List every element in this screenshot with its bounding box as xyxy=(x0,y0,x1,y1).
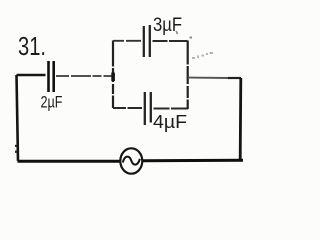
capacitor C2 3uF right plate xyxy=(149,25,151,57)
capacitor C2 3uF left plate xyxy=(143,26,145,57)
wire: top branch left (to C2) xyxy=(113,40,141,42)
wire: outer right vertical rail xyxy=(239,78,242,160)
node: parallel block right vertical wire xyxy=(187,41,189,110)
wire: bottom branch left (to C3) xyxy=(113,107,142,109)
svg-text:2µF: 2µF xyxy=(41,93,63,112)
faint tick mark above block top-right corner xyxy=(176,31,177,34)
svg-text:31.: 31. xyxy=(18,33,46,61)
junction blob at block left rail xyxy=(111,73,115,82)
node: parallel block left vertical wire xyxy=(112,41,114,109)
wire: bottom rail left of source xyxy=(18,160,121,163)
wire: middle right horizontal to outer right rail xyxy=(188,77,228,79)
svg-text:4µF: 4µF xyxy=(153,112,187,132)
wire: bottom rail right of source xyxy=(142,159,243,163)
capacitor C3 4uF left plate xyxy=(144,92,146,125)
wire: C1 to parallel block (broken scan line) xyxy=(56,75,112,77)
capacitor C1 2uF left plate xyxy=(47,61,50,92)
wire: top-left horizontal from outer corner to C1 xyxy=(17,74,46,76)
faint pencil marks right of 3uF label xyxy=(192,52,213,59)
scan nubs on left rail xyxy=(15,145,17,147)
wire: bottom branch right (C3 to right rail) xyxy=(154,108,189,110)
capacitor C3 4uF right plate xyxy=(150,92,152,123)
faint dot below 3uF label xyxy=(190,37,193,39)
AC source V1: circle xyxy=(120,148,142,173)
wire: top branch right (C2 to right rail) xyxy=(153,40,188,42)
AC source V1: sine symbol xyxy=(123,157,140,165)
wire: outer left vertical rail xyxy=(17,75,19,161)
capacitor C1 2uF right plate xyxy=(52,61,55,92)
wire: middle right horizontal, darker end at corner xyxy=(228,77,241,79)
